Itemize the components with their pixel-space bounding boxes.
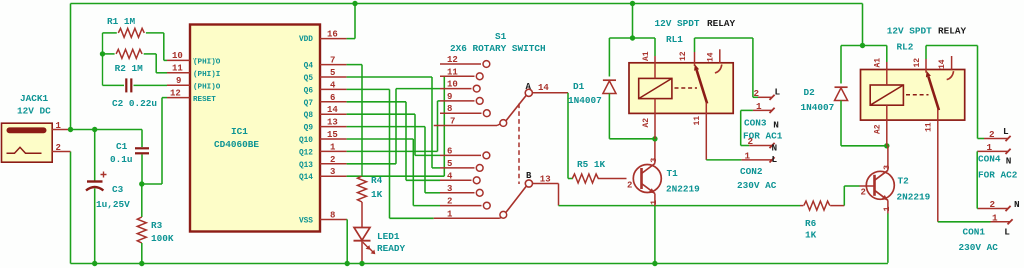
diode D2 1N4007 [835, 86, 848, 88]
node +12V junction dot at RL1 drop [630, 1, 635, 6]
svg-text:B: B [526, 171, 532, 181]
node junction R1/R2 left [100, 51, 105, 56]
svg-text:14: 14 [707, 52, 716, 62]
pin 12 of RL2 [925, 46, 927, 60]
svg-text:(PHI)O: (PHI)O [193, 83, 221, 91]
svg-text:5: 5 [447, 159, 452, 169]
pin 2 of CON2 [749, 145, 772, 147]
transistor Q-T2 2N2219 [866, 170, 894, 200]
wire R2 right to pin 11 [155, 54, 157, 73]
svg-text:IC1: IC1 [231, 126, 248, 137]
svg-text:R3: R3 [151, 220, 163, 231]
svg-text:A1: A1 [642, 51, 651, 61]
svg-text:3: 3 [447, 184, 452, 194]
IC U1 CD4060BE box [190, 25, 320, 232]
svg-text:D1: D1 [573, 81, 585, 92]
svg-text:Q6: Q6 [304, 87, 314, 95]
svg-text:N: N [772, 143, 778, 154]
svg-text:RESET: RESET [193, 96, 216, 104]
wire Q4 to R4/LED net [347, 64, 362, 66]
wire Q13 to row10 [347, 163, 396, 165]
svg-text:0.1u: 0.1u [110, 154, 133, 165]
svg-text:2N2219: 2N2219 [666, 184, 700, 195]
pin 6 stub [320, 101, 347, 103]
svg-text:1: 1 [756, 101, 762, 112]
capacitor C3 1u 25V polarized [94, 130, 96, 181]
svg-text:2: 2 [627, 181, 632, 191]
pin 13 of S1 [533, 183, 559, 185]
svg-text:10: 10 [172, 51, 183, 61]
svg-text:N: N [1014, 199, 1020, 210]
relay RL1 coil [639, 78, 672, 98]
transistor Q-T1 2N2219 [633, 164, 661, 194]
svg-text:2N2219: 2N2219 [897, 192, 931, 203]
wire C1 bottom to pin12 net [142, 183, 162, 185]
pin 1 of CON3 [753, 109, 772, 111]
pin 3 collector T2 [887, 146, 889, 171]
pin 1 of JACK1 [52, 129, 71, 131]
svg-text:12: 12 [913, 58, 922, 68]
pin 14 of RL2 (NO hook) [951, 56, 953, 70]
pin 14 of RL1 (NO hook) [719, 49, 721, 63]
wire D2 top [840, 46, 842, 84]
svg-text:READY: READY [377, 243, 406, 254]
svg-text:T1: T1 [667, 168, 679, 179]
svg-text:CON4: CON4 [978, 154, 1001, 165]
pin 1 emitter T2 [887, 200, 889, 213]
svg-text:1K: 1K [371, 189, 383, 200]
svg-text:N: N [773, 120, 779, 131]
svg-text:8: 8 [330, 211, 335, 221]
pin 3 stub [320, 175, 347, 177]
svg-text:R5 1K: R5 1K [577, 159, 606, 170]
pin 2 of CON4 [984, 138, 1008, 140]
svg-text:11: 11 [693, 116, 702, 126]
svg-text:1: 1 [992, 213, 998, 224]
svg-text:LED1: LED1 [377, 231, 400, 242]
svg-text:12: 12 [447, 55, 458, 65]
switch throw 10 [440, 88, 472, 90]
svg-text:A2: A2 [874, 124, 883, 134]
svg-text:L: L [1003, 126, 1009, 137]
diode D1 1N4007 [603, 79, 616, 81]
wire pole B to R6 (crosses under T1) [559, 205, 801, 207]
wire pin12 RL2 to CON4 [926, 45, 978, 47]
svg-text:12: 12 [170, 88, 181, 98]
wire right +12V drop to RL2 [862, 4, 864, 46]
wire +12V to RL2 coil [841, 45, 887, 47]
wire R1 right to pin 10 [163, 33, 165, 61]
resistor R3 100K [141, 184, 143, 217]
wire Q14 to row11 [347, 175, 445, 177]
svg-text:14: 14 [938, 59, 947, 69]
svg-text:9: 9 [447, 92, 452, 102]
relay RL1 blade [697, 70, 708, 104]
node junction LED / GND [359, 261, 364, 266]
relay RL2 coil [870, 85, 903, 105]
pin 5 stub [320, 76, 347, 78]
node junction jack pin1 / +12V [68, 127, 73, 132]
switch throw 11 [440, 75, 475, 77]
pin 9 (PHI)O [167, 84, 190, 86]
wire +12V horizontal to C1 [71, 129, 143, 131]
pin 1 emitter T1 [654, 194, 656, 207]
svg-text:2: 2 [748, 136, 754, 147]
gang link dashed [518, 104, 520, 185]
resistor R1 1M [103, 32, 117, 34]
svg-text:1: 1 [745, 151, 751, 162]
svg-text:Q14: Q14 [299, 174, 313, 182]
node junction coil feed [630, 35, 635, 40]
svg-text:C3: C3 [112, 184, 124, 195]
pin 11 of RL2 [937, 109, 939, 222]
svg-text:14: 14 [538, 83, 549, 93]
svg-text:1K: 1K [805, 230, 817, 241]
svg-text:1N4007: 1N4007 [801, 102, 835, 113]
svg-text:CON2: CON2 [740, 166, 763, 177]
pin 16 stub [320, 38, 347, 40]
svg-text:C2 0.22u: C2 0.22u [112, 98, 157, 109]
resistor R5 1K [568, 178, 573, 180]
svg-text:230V AC: 230V AC [959, 242, 999, 253]
svg-text:3: 3 [649, 158, 659, 163]
node junction C3 top [92, 127, 97, 132]
wire Q8 to row6 [347, 113, 415, 115]
node junction T1 emitter / GND [652, 261, 657, 266]
wire Q10 to row2 [347, 138, 414, 140]
svg-text:13: 13 [540, 174, 551, 184]
svg-text:Q9: Q9 [304, 125, 314, 133]
wire GND bottom rail [71, 263, 888, 265]
pole A blade [506, 95, 526, 120]
resistor R4 1K [358, 176, 367, 202]
wire VSS to GND [346, 219, 349, 221]
svg-text:L: L [0, 0, 6, 3]
wire CON3.1 to CON2.2 [741, 109, 753, 111]
node junction C1/R3/pin12 [139, 181, 144, 186]
svg-text:2: 2 [990, 199, 996, 210]
svg-text:2X6 ROTARY SWITCH: 2X6 ROTARY SWITCH [450, 43, 546, 54]
svg-text:R4: R4 [371, 175, 383, 186]
svg-text:CD4060BE: CD4060BE [214, 139, 259, 150]
svg-text:14: 14 [327, 105, 338, 115]
pin 1 of CON1 [991, 221, 1011, 223]
svg-text:L: L [775, 87, 781, 98]
svg-text:Q10: Q10 [299, 137, 313, 145]
pin 1 of CON2 [741, 159, 772, 161]
pin 14 of S1 [532, 92, 568, 94]
switch throw 3 [440, 192, 475, 194]
pin A1 of RL1 [654, 38, 656, 56]
svg-text:10: 10 [447, 80, 458, 90]
svg-text:L: L [772, 154, 778, 165]
wire D1 anode to collector node [609, 138, 655, 140]
svg-text:L: L [1004, 227, 1010, 238]
svg-text:12V SPDT: 12V SPDT [655, 18, 700, 29]
wire Q12 to row9 [347, 150, 438, 152]
wire Q6 to row1 [347, 88, 390, 90]
wire CON4.1 to CON1.2 [976, 150, 978, 152]
pin 15 stub [320, 138, 347, 140]
wire +12V top rail [71, 3, 863, 5]
svg-text:2: 2 [447, 197, 452, 207]
wire VDD pin16 to +12V rail [347, 38, 355, 40]
svg-text:Q12: Q12 [299, 149, 313, 157]
svg-text:9: 9 [176, 76, 181, 86]
svg-text:1u,25V: 1u,25V [96, 199, 130, 210]
relay RL2 blade [928, 77, 939, 111]
svg-text:Q4: Q4 [304, 63, 314, 71]
node junction A2/collector RL2 [884, 143, 889, 148]
svg-text:FOR AC2: FOR AC2 [978, 170, 1018, 181]
svg-text:12V SPDT: 12V SPDT [887, 26, 932, 37]
wire pole A to R5 [567, 93, 569, 179]
svg-text:1: 1 [447, 209, 453, 219]
switch throw 7 (selected) [434, 125, 497, 127]
svg-text:2: 2 [989, 129, 995, 140]
svg-text:3: 3 [882, 165, 892, 170]
svg-text:12: 12 [679, 51, 688, 61]
svg-text:11: 11 [172, 64, 183, 74]
svg-text:A: A [526, 82, 532, 92]
pin 1 of CON4 [978, 150, 1009, 152]
svg-text:13: 13 [327, 118, 338, 128]
wire Q7 to row4 [347, 101, 406, 103]
node +12V junction dot at VDD drop [352, 1, 357, 6]
pin 14 stub [320, 113, 347, 115]
node junction VSS / GND [345, 261, 350, 266]
pin 12 RESET [167, 97, 190, 99]
pole B blade [506, 186, 526, 212]
pin A1 of RL2 [886, 46, 888, 63]
svg-text:16: 16 [327, 30, 338, 40]
wire Q9 to row3 [347, 126, 425, 128]
svg-text:2: 2 [861, 188, 866, 198]
pin 11 (PHI)I [167, 72, 190, 74]
svg-text:A2: A2 [642, 118, 651, 128]
svg-text:5: 5 [330, 68, 335, 78]
svg-text:2: 2 [330, 155, 335, 165]
svg-text:VSS: VSS [299, 218, 313, 226]
svg-text:Q7: Q7 [304, 100, 314, 108]
svg-text:1: 1 [649, 200, 659, 205]
switch throw 1 (selected) [434, 217, 500, 219]
svg-text:1: 1 [330, 142, 336, 152]
wire +12V drop to RL1 coil [632, 4, 634, 39]
LED D-LED1 [354, 228, 370, 241]
node junction C3 bottom / GND [92, 261, 97, 266]
switch throw 2 [440, 205, 482, 207]
pin 13 stub [320, 126, 347, 128]
wire left +12V drop [70, 4, 72, 130]
svg-text:8: 8 [447, 104, 452, 114]
svg-text:11: 11 [925, 122, 934, 132]
pin A2 of RL2 [886, 105, 888, 146]
wire coil/diode top [609, 37, 655, 39]
svg-text:11: 11 [447, 67, 458, 77]
svg-text:VDD: VDD [299, 36, 313, 44]
svg-text:A1: A1 [874, 58, 883, 68]
switch throw 6 [440, 154, 481, 156]
connector JACK1 12V DC [2, 123, 53, 162]
svg-text:6: 6 [447, 146, 452, 156]
svg-text:12V DC: 12V DC [17, 106, 51, 117]
node junction R3 bottom / GND [139, 261, 144, 266]
wire R6 to T2 base [843, 186, 845, 206]
svg-text:RL1: RL1 [666, 34, 683, 45]
svg-text:7: 7 [330, 56, 335, 66]
svg-text:6: 6 [330, 93, 335, 103]
svg-text:R6: R6 [805, 218, 817, 229]
pin 1 stub [320, 150, 347, 152]
svg-text:1: 1 [56, 121, 62, 131]
switch throw 8 [440, 112, 482, 114]
svg-text:R1 1M: R1 1M [107, 16, 136, 27]
pin A2 of RL1 [654, 99, 656, 139]
svg-text:Q13: Q13 [299, 162, 313, 170]
node junction A2/collector [652, 136, 657, 141]
relay RL1 box [629, 63, 733, 114]
svg-text:JACK1: JACK1 [20, 93, 49, 104]
resistor R2 1M [103, 53, 115, 55]
pin 11 of RL1 [705, 103, 707, 160]
svg-text:3: 3 [330, 167, 335, 177]
svg-text:D2: D2 [804, 87, 816, 98]
relay RL1 dashed link [675, 87, 698, 89]
pin 2 of CON1 [978, 208, 1008, 210]
switch throw 9 [440, 100, 475, 102]
svg-text:4: 4 [447, 171, 453, 181]
svg-text:RELAY: RELAY [707, 18, 736, 29]
relay RL2 dashed link [906, 94, 929, 96]
svg-text:1N4007: 1N4007 [568, 95, 602, 106]
svg-text:7: 7 [450, 117, 455, 127]
capacitor C1 0.1u [141, 130, 143, 148]
wire jack pin2 to GND [70, 152, 72, 264]
pin 7 stub [320, 64, 347, 66]
svg-text:15: 15 [327, 130, 338, 140]
pin 3 collector T1 [654, 139, 656, 164]
pin 4 stub [320, 88, 347, 90]
svg-text:N: N [1006, 156, 1012, 167]
wire D2 anode to T2 collector node [841, 145, 887, 147]
svg-text:2: 2 [56, 143, 61, 153]
pin 2 of CON3 [758, 96, 772, 98]
wire R1-R2-C2 left vertical [102, 33, 104, 86]
svg-text:(PHI)I: (PHI)I [193, 71, 220, 79]
relay RL2 box [861, 70, 965, 121]
svg-text:Q5: Q5 [304, 75, 314, 83]
svg-text:1: 1 [987, 142, 993, 153]
pin 2 of JACK1 [52, 151, 71, 153]
pin 2 stub [320, 163, 347, 165]
pin 12 of RL1 [694, 38, 696, 52]
svg-text:1: 1 [882, 206, 892, 211]
wire RL1 pin11 to CON2.1 [706, 159, 741, 161]
pin 8 stub [320, 219, 347, 221]
svg-text:2: 2 [754, 88, 760, 99]
svg-text:CON3: CON3 [744, 118, 767, 129]
node junction RL2 feed [860, 43, 865, 48]
svg-text:(PHI)O: (PHI)O [193, 59, 221, 67]
svg-text:RL2: RL2 [897, 42, 914, 53]
switch throw 4 [440, 179, 472, 181]
resistor R6 1K [800, 205, 803, 207]
svg-text:100K: 100K [151, 233, 174, 244]
switch throw 5 [440, 167, 475, 169]
svg-text:T2: T2 [898, 176, 910, 187]
svg-text:R2 1M: R2 1M [115, 63, 144, 74]
svg-text:S1: S1 [495, 31, 507, 42]
wire Q5 to row5 [347, 76, 432, 78]
svg-text:RELAY: RELAY [938, 26, 967, 37]
pin 10 (PHI)O [167, 59, 190, 61]
svg-text:C1: C1 [116, 141, 128, 152]
svg-text:CON1: CON1 [963, 227, 986, 238]
svg-text:230V AC: 230V AC [737, 180, 777, 191]
wire pin12 to CON3 [695, 37, 753, 39]
wire RL2 pin11 to CON1.1 [938, 221, 991, 223]
switch throw 12 [440, 63, 481, 65]
svg-text:Q8: Q8 [304, 112, 314, 120]
capacitor C2 0.22u [103, 84, 125, 86]
svg-text:4: 4 [330, 80, 336, 90]
